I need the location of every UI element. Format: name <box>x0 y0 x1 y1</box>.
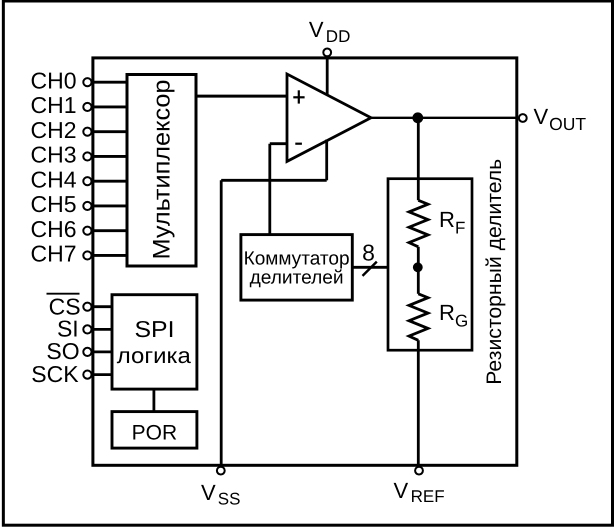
wire VSS horizontal jog <box>221 179 327 182</box>
wire op-amp inverting input feedback <box>270 144 287 235</box>
svg-text:логика: логика <box>117 343 192 368</box>
svg-text:POR: POR <box>132 422 178 445</box>
pin CH2 <box>30 117 127 143</box>
SPI logic block (SPI логика) <box>112 295 197 389</box>
pin CH7 <box>30 241 127 267</box>
bus width slash <box>363 262 377 276</box>
wire output node down to RF <box>417 118 420 201</box>
svg-text:CH7: CH7 <box>30 241 76 267</box>
svg-text:CH6: CH6 <box>30 216 76 242</box>
svg-text:CH5: CH5 <box>30 191 76 217</box>
svg-text:G: G <box>455 312 468 331</box>
pin VOUT <box>519 104 586 134</box>
svg-text:DD: DD <box>326 27 351 46</box>
pin CH6 <box>30 216 127 242</box>
svg-text:CH1: CH1 <box>30 92 76 118</box>
svg-text:CH2: CH2 <box>30 117 76 143</box>
junction node between RF and RG <box>413 262 423 272</box>
svg-text:8: 8 <box>362 239 375 265</box>
svg-text:CH0: CH0 <box>30 67 76 93</box>
pin VDD <box>309 17 350 56</box>
svg-text:SS: SS <box>218 490 241 509</box>
pin VREF <box>394 467 445 506</box>
IC package boundary <box>93 58 517 465</box>
svg-text:V: V <box>201 480 216 505</box>
svg-text:SCK: SCK <box>31 361 79 387</box>
svg-text:делителей: делителей <box>250 268 344 289</box>
pin CS (active low) <box>47 293 113 319</box>
svg-text:V: V <box>534 104 549 129</box>
resistor divider block (Резисторный делитель) <box>388 179 472 351</box>
svg-text:R: R <box>439 207 455 232</box>
bus wire divider switch to resistor divider <box>352 266 418 269</box>
wire RF to junction <box>417 247 420 267</box>
wire op-amp VSS supply drop <box>325 140 328 181</box>
pin CH0 <box>30 67 127 93</box>
multiplexer block (Мультиплексор) <box>127 75 196 267</box>
pin CH3 <box>30 142 127 168</box>
pin SI <box>57 315 112 341</box>
pin SCK <box>31 361 112 387</box>
svg-text:V: V <box>309 17 324 42</box>
junction node at op-amp output <box>412 112 423 123</box>
wire SPI logic to POR <box>152 389 155 412</box>
pin SO <box>46 338 112 364</box>
wire RG to VREF <box>417 340 420 465</box>
wire multiplexer output to op-amp + input <box>196 95 287 98</box>
op-amp U1 <box>287 74 371 161</box>
svg-text:OUT: OUT <box>549 114 586 134</box>
resistor RG <box>409 294 468 341</box>
resistor RF <box>409 200 465 247</box>
wire junction to RG <box>417 267 420 294</box>
divider switch block (Коммутатор делителей) <box>241 235 352 301</box>
pin VSS <box>201 467 240 509</box>
svg-text:Мультиплексор: Мультиплексор <box>148 80 175 260</box>
POR block <box>112 412 197 449</box>
svg-text:CH4: CH4 <box>30 166 76 192</box>
svg-text:SPI: SPI <box>135 316 175 342</box>
pin CH1 <box>30 92 127 118</box>
svg-text:REF: REF <box>411 487 445 506</box>
svg-text:V: V <box>394 478 409 503</box>
pin CH4 <box>30 166 127 192</box>
wire VDD to op-amp <box>326 56 329 95</box>
svg-text:Резисторный делитель: Резисторный делитель <box>483 159 506 385</box>
svg-text:F: F <box>455 218 465 237</box>
pin CH5 <box>30 191 127 217</box>
svg-text:CH3: CH3 <box>30 142 76 168</box>
wire VSS vertical run <box>220 180 223 465</box>
svg-text:R: R <box>439 300 455 325</box>
wire op-amp output to VOUT <box>371 117 517 119</box>
